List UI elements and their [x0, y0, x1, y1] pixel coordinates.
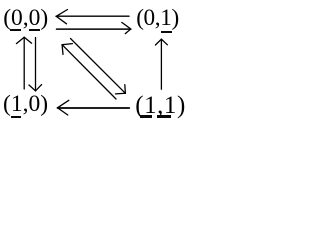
arrow (0,0) to (1,1), shaft: [71, 39, 126, 94]
arrow (1,1) to (1,0), shaft: [58, 107, 130, 109]
arrow (1,0) to (0,0), head: [16, 37, 31, 43]
arrow (1,0) to (0,0), shaft: [23, 37, 25, 89]
arrow (0,0) to (0,1), shaft: [57, 28, 131, 30]
underline of first 1 in (1,1): [140, 115, 152, 117]
underline of second 1 in (1,1): [157, 115, 171, 117]
arrow (0,0) to (0,1), head: [122, 22, 131, 33]
arrow (0,1) to (0,0), head: [56, 10, 67, 24]
node (1,1): [135, 93, 186, 118]
arrow (0,0) to (1,0), head: [29, 85, 42, 91]
arrow (0,0) to (1,0), shaft: [35, 38, 37, 91]
underline of 1 in (0,1): [161, 31, 172, 33]
node (1,0): [3, 93, 48, 117]
arrow (1,1) to (0,0), head: [62, 44, 72, 55]
arrow (1,1) to (0,1), head: [155, 39, 167, 45]
arrow (0,0) to (1,1), head: [116, 85, 126, 94]
underline of 1 in (1,0): [11, 116, 21, 118]
node (0,0): [3, 7, 48, 31]
arrow (0,1) to (0,0), shaft: [56, 15, 129, 17]
arrow (1,1) to (0,0), shaft: [62, 45, 116, 99]
underline of second 0 in (0,0): [29, 29, 40, 31]
arrow (1,1) to (0,1), shaft: [160, 39, 162, 89]
arrow (1,1) to (1,0), head: [58, 100, 69, 115]
node (0,1): [136, 7, 179, 30]
underline of first 0 in (0,0): [10, 29, 21, 31]
